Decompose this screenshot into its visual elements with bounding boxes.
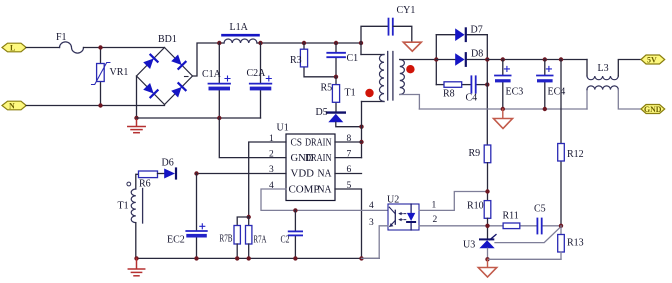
svg-text:R7B: R7B bbox=[220, 234, 233, 245]
junction EC4 top bbox=[543, 57, 547, 61]
wire pin 2 GND bbox=[219, 118, 286, 158]
svg-text:DRAIN: DRAIN bbox=[305, 153, 332, 164]
wire pin 5 to primary ground bbox=[335, 189, 362, 259]
junction R7A bottom bbox=[247, 256, 251, 260]
svg-text:CS: CS bbox=[291, 137, 303, 148]
wire C1 leads bbox=[335, 43, 337, 52]
port N bbox=[2, 101, 26, 110]
junction aux ground bbox=[134, 256, 138, 260]
wire pin 6 stub bbox=[335, 173, 362, 175]
inductor L1A bbox=[223, 35, 259, 43]
svg-text:R7A: R7A bbox=[254, 235, 268, 246]
varistor VR1 bbox=[92, 63, 110, 85]
svg-text:DRAIN: DRAIN bbox=[305, 137, 332, 148]
ground (earth) at bridge bbox=[128, 118, 145, 133]
resistor R12 bbox=[558, 144, 565, 162]
resistor R3 bbox=[300, 49, 307, 67]
capacitor C2 bbox=[289, 231, 302, 235]
svg-text:BD1: BD1 bbox=[158, 34, 177, 45]
svg-text:R11: R11 bbox=[503, 211, 519, 222]
wire VR1 top lead bbox=[100, 48, 102, 64]
svg-text:F1: F1 bbox=[56, 32, 67, 43]
arrow symbol feedback ground bbox=[478, 259, 496, 277]
wire R3 leads bbox=[303, 43, 305, 49]
svg-text:C5: C5 bbox=[534, 204, 546, 215]
wire drain vertical bbox=[361, 102, 363, 158]
bridge minus mark bbox=[185, 76, 189, 78]
shunt regulator U3 bbox=[479, 235, 496, 249]
junction clamp node bbox=[334, 75, 338, 79]
junction C2 top bbox=[293, 208, 297, 212]
junction divider node bbox=[559, 224, 563, 228]
wire R7B jog bbox=[237, 217, 249, 226]
wire D5 to drain node bbox=[336, 122, 362, 126]
junction VR1 bottom bbox=[98, 103, 102, 107]
resistor R11 bbox=[503, 223, 520, 229]
wire U3 anode to ground node bbox=[487, 248, 489, 259]
wire EC4 leads bbox=[544, 60, 546, 76]
wire R13 top stub bbox=[560, 226, 562, 235]
auxiliary winding T1 bbox=[131, 174, 142, 258]
wire U2 pin 3 to primary ground bbox=[362, 226, 389, 259]
wire secondary feedback rail bbox=[488, 258, 562, 260]
svg-text:L3: L3 bbox=[598, 63, 609, 74]
svg-text:R8: R8 bbox=[443, 89, 455, 100]
svg-text:5V: 5V bbox=[647, 56, 657, 65]
fuse F1 bbox=[60, 42, 84, 53]
capacitor CY1 bbox=[389, 19, 393, 35]
junction R9 R10 pin1 bbox=[485, 189, 489, 193]
wire pin 3 VDD bbox=[197, 173, 287, 175]
junction pin8 bbox=[359, 140, 363, 144]
wire L to fuse bbox=[26, 47, 59, 49]
junction EC3 top bbox=[501, 57, 505, 61]
resistor R8 bbox=[444, 82, 462, 88]
junction 5V rail start bbox=[485, 57, 489, 61]
junction pin5 ground bbox=[359, 256, 363, 260]
svg-text:D5: D5 bbox=[316, 107, 328, 118]
wire bridge left corner to primary ground rail bbox=[136, 76, 138, 118]
wire VR1 bottom lead bbox=[100, 82, 102, 106]
op-amp U1 PWM controller bbox=[286, 134, 335, 201]
junction R12 top bbox=[559, 57, 563, 61]
svg-text:C1: C1 bbox=[347, 53, 359, 64]
svg-text:3: 3 bbox=[369, 218, 374, 228]
bridge rectifier BD1 bbox=[137, 48, 193, 105]
svg-text:T1: T1 bbox=[345, 88, 356, 99]
capacitor EC4 bbox=[537, 66, 553, 82]
capacitor C2A bbox=[250, 76, 271, 90]
wire C5 to divider node bbox=[542, 225, 561, 227]
svg-text:T1: T1 bbox=[118, 201, 129, 212]
junction drain node bbox=[359, 125, 363, 129]
svg-text:COMP: COMP bbox=[289, 184, 320, 195]
wire secondary top to rectifier node bbox=[400, 59, 437, 61]
junction VDD node bbox=[194, 171, 198, 175]
resistor R7B bbox=[234, 226, 240, 245]
svg-text:R10: R10 bbox=[467, 201, 484, 212]
wire R13 bottom stub bbox=[560, 252, 562, 259]
wire secondary gnd rail bbox=[419, 108, 587, 110]
svg-text:CY1: CY1 bbox=[397, 5, 416, 16]
svg-text:R3: R3 bbox=[290, 55, 302, 66]
wire top rail L1A to CY1 vertical bbox=[257, 42, 361, 44]
svg-text:R5: R5 bbox=[321, 83, 333, 94]
svg-text:U2: U2 bbox=[387, 195, 399, 206]
wire primary dc-minus rail bbox=[137, 117, 261, 119]
resistor R9 bbox=[484, 145, 491, 163]
svg-text:R9: R9 bbox=[469, 148, 481, 159]
wire pin 7 bbox=[335, 157, 362, 159]
junction C1 top bbox=[334, 41, 338, 45]
junction U3 ground bbox=[485, 257, 489, 261]
junction R7B bottom bbox=[235, 256, 239, 260]
resistor R7A bbox=[246, 226, 252, 245]
polarity dot primary bbox=[365, 89, 373, 97]
wire R10 to U3 bbox=[487, 218, 489, 239]
wire C2 leads bbox=[294, 210, 296, 231]
arrow symbol secondary ground bbox=[494, 109, 513, 129]
wire U3 ref bbox=[495, 227, 561, 243]
svg-text:L: L bbox=[10, 44, 15, 53]
capacitor EC2 bbox=[186, 224, 207, 238]
junction EC2 bottom bbox=[194, 256, 198, 260]
wire C2A leads bbox=[260, 43, 262, 83]
resistor R5 bbox=[332, 85, 339, 103]
wire C1A leads bbox=[218, 43, 220, 83]
wire U2 pin 2 feedback row bbox=[419, 225, 503, 227]
junction R3 top bbox=[302, 41, 306, 45]
ground (earth) at aux winding bbox=[128, 258, 144, 275]
junction snubber right bbox=[485, 82, 489, 86]
wire bridge right corner to top rail bbox=[193, 43, 225, 76]
arrow symbol CY1 to secondary ground bbox=[403, 42, 421, 51]
junction EC4 bottom bbox=[543, 107, 547, 111]
svg-text:EC2: EC2 bbox=[167, 235, 185, 246]
junction top rail / CY1 bbox=[359, 41, 363, 45]
wire snubber row bbox=[436, 84, 444, 86]
capacitor EC3 bbox=[495, 66, 511, 82]
capacitor C4 bbox=[471, 76, 475, 92]
junction CS divider top bbox=[247, 215, 251, 219]
junction C2A top bbox=[258, 41, 262, 45]
wire fuse to bridge top bbox=[84, 47, 165, 49]
polarity dot secondary bbox=[406, 65, 414, 73]
port 5V bbox=[641, 55, 665, 65]
wire D8 row bbox=[436, 59, 455, 61]
junction VR1 top bbox=[98, 45, 102, 49]
wire R5 leads bbox=[335, 77, 337, 85]
svg-text:EC4: EC4 bbox=[548, 87, 566, 98]
resistor R13 bbox=[558, 235, 565, 253]
wire R7A bottom stub bbox=[248, 244, 250, 259]
svg-text:2: 2 bbox=[433, 215, 438, 225]
polarity mark o bbox=[127, 182, 131, 186]
capacitor C5 bbox=[537, 219, 541, 234]
transformer T1 bbox=[361, 52, 404, 102]
capacitor C1A bbox=[209, 76, 231, 90]
diode D6 bbox=[164, 169, 176, 179]
diode D7 bbox=[455, 28, 466, 41]
junction EC3 bottom bbox=[501, 107, 505, 111]
svg-text:4: 4 bbox=[369, 201, 374, 211]
svg-text:1: 1 bbox=[432, 201, 437, 211]
wire R6 to D6 bbox=[158, 173, 165, 175]
junction secondary / D8 anode bbox=[434, 57, 438, 61]
svg-text:N: N bbox=[9, 102, 15, 111]
wire D7 D8 anode vertical bbox=[435, 35, 437, 85]
junction C1A top bbox=[217, 41, 221, 45]
wire pin 1 CS bbox=[249, 142, 286, 217]
diode D5 bbox=[327, 113, 345, 123]
wire N to bridge bottom bbox=[26, 105, 164, 106]
wire R7A top stub bbox=[248, 217, 250, 226]
svg-text:VDD: VDD bbox=[291, 169, 315, 180]
resistor R6 bbox=[139, 171, 158, 178]
wire CY1 left leg bbox=[361, 26, 388, 54]
junction C1A bottom bbox=[217, 116, 221, 120]
wire rectifier cathode vertical bbox=[486, 35, 488, 145]
junction bridge minus node bbox=[134, 116, 138, 120]
svg-text:C4: C4 bbox=[466, 92, 478, 103]
choke L3 bbox=[587, 60, 641, 110]
wire R12 line bbox=[560, 60, 562, 144]
svg-text:GND: GND bbox=[644, 105, 662, 114]
svg-text:D6: D6 bbox=[162, 158, 174, 169]
svg-text:D7: D7 bbox=[471, 25, 483, 36]
wire secondary bottom to gnd rail bbox=[400, 95, 420, 110]
svg-text:D8: D8 bbox=[471, 49, 483, 60]
svg-text:L1A: L1A bbox=[230, 22, 249, 33]
wire 5V rail bbox=[487, 59, 587, 61]
wire EC3 leads bbox=[502, 60, 504, 76]
wire R7B bottom stub bbox=[236, 244, 238, 259]
wire U2 pin 1 bbox=[419, 192, 488, 211]
wire pin 8 bbox=[335, 141, 362, 143]
svg-text:R13: R13 bbox=[567, 238, 584, 249]
svg-text:U1: U1 bbox=[277, 123, 289, 134]
svg-text:C2A: C2A bbox=[247, 68, 267, 79]
svg-text:NA: NA bbox=[318, 184, 333, 195]
optocoupler U2 bbox=[388, 204, 419, 230]
svg-text:EC3: EC3 bbox=[506, 87, 524, 98]
wire D7 row bbox=[436, 34, 455, 36]
wire EC2 leads bbox=[196, 174, 198, 231]
svg-text:C1A: C1A bbox=[202, 69, 222, 80]
junction R10 U3 feedback bbox=[485, 224, 489, 228]
wire R9 to R10 bbox=[487, 163, 489, 201]
capacitor C1 bbox=[327, 53, 345, 57]
resistor R10 bbox=[484, 201, 491, 219]
junction C2 bottom bbox=[293, 256, 297, 260]
svg-text:C2: C2 bbox=[281, 235, 290, 246]
wire pin 4 COMP bbox=[261, 189, 388, 210]
wire primary ground rail bbox=[137, 257, 380, 259]
diode D8 bbox=[455, 53, 466, 66]
svg-text:R12: R12 bbox=[567, 149, 584, 160]
wire R11 to C5 bbox=[520, 225, 537, 227]
wire CY1 right leg bbox=[393, 26, 412, 41]
svg-text:VR1: VR1 bbox=[110, 67, 129, 78]
port GND bbox=[641, 105, 665, 114]
svg-text:NA: NA bbox=[318, 169, 333, 180]
svg-text:R6: R6 bbox=[139, 179, 151, 190]
svg-text:U3: U3 bbox=[463, 240, 475, 251]
port L bbox=[2, 43, 26, 52]
